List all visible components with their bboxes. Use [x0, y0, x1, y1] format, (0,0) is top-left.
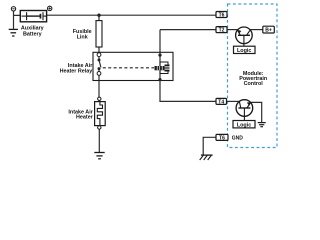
svg-text:B+: B+ — [265, 28, 272, 34]
svg-text:Battery: Battery — [23, 31, 42, 37]
svg-text:GND: GND — [232, 135, 244, 141]
svg-text:Link: Link — [77, 35, 88, 41]
svg-text:Heater Relay: Heater Relay — [60, 68, 93, 74]
svg-text:T4: T4 — [218, 99, 224, 105]
svg-text:Control: Control — [244, 81, 264, 87]
svg-text:T6: T6 — [219, 12, 225, 18]
svg-text:T6: T6 — [219, 135, 225, 141]
svg-text:Logic: Logic — [237, 122, 251, 128]
svg-text:Logic: Logic — [237, 48, 251, 54]
svg-text:Heater: Heater — [76, 114, 94, 120]
svg-text:T2: T2 — [219, 28, 225, 34]
